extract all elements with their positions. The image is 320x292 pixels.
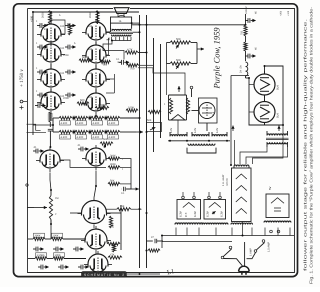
grid coupling cap C8 <box>65 70 76 75</box>
junction dot 3 <box>139 24 141 26</box>
resistor R12 <box>109 216 112 228</box>
cathode cap C14 <box>48 129 53 131</box>
cap-arrow row4b <box>73 247 84 252</box>
filament winding W1 <box>170 135 187 137</box>
resistor R4b 600 <box>100 60 111 63</box>
svg-text:Purple Cow, 1959: Purple Cow, 1959 <box>212 27 222 90</box>
junction dot 16 <box>146 250 148 252</box>
svg-text:50K: 50K <box>147 119 152 122</box>
svg-text:SCHEMATIC No 2: SCHEMATIC No 2 <box>84 273 124 277</box>
wire HV down <box>240 147 267 164</box>
border frame inner <box>28 9 295 273</box>
label boxes row2 <box>60 135 71 139</box>
svg-text:1: 1 <box>36 90 38 93</box>
junction dot 2 <box>32 11 34 13</box>
wire tube col tops <box>50 12 52 24</box>
plug cord <box>224 259 243 266</box>
svg-text:16: 16 <box>119 20 122 23</box>
wire plate hookups <box>106 28 111 32</box>
resistor R3 <box>68 24 71 35</box>
svg-text:600: 600 <box>80 99 85 102</box>
resistor R13 <box>112 243 115 252</box>
svg-text:0.1: 0.1 <box>121 192 125 195</box>
junction dot 18 <box>186 140 188 142</box>
cap-arrow row4a <box>53 247 64 252</box>
svg-text:b: b <box>74 42 76 45</box>
wire pi <box>120 205 122 250</box>
resistor ladder row1 <box>59 116 72 119</box>
filament winding W3 <box>212 135 227 137</box>
svg-text:2000: 2000 <box>42 12 45 18</box>
wire V10 V11 <box>95 171 97 186</box>
junction dot 1 <box>97 11 99 13</box>
phase inverter V11 <box>78 198 111 229</box>
resistor R10 <box>148 110 161 113</box>
junction dot 9 <box>52 124 54 126</box>
resistor R16 <box>107 242 120 245</box>
core line <box>168 140 230 142</box>
svg-text:2000: 2000 <box>89 12 92 18</box>
wire mid verticals <box>139 15 141 268</box>
plate resistor R32 56k <box>108 182 120 185</box>
wire V9 plate <box>60 160 106 167</box>
coupling cap C15 <box>124 187 126 191</box>
wire V7 jog <box>113 74 115 93</box>
svg-text:+510V: +510V <box>245 6 248 14</box>
tube V12 <box>81 226 111 254</box>
wire tube16 <box>192 110 200 112</box>
junction dot 11 <box>146 212 148 214</box>
resistor R17 <box>108 256 122 259</box>
terminal b <box>277 230 280 233</box>
svg-text:4-300: 4-300 <box>93 122 100 125</box>
pot 50k/2w <box>147 119 162 132</box>
title plate <box>82 272 127 278</box>
svg-text:100K: 100K <box>53 235 59 238</box>
junction dot 10 <box>139 208 141 210</box>
wire V9 pot <box>49 173 51 180</box>
junction dot 12 <box>50 189 52 191</box>
svg-text:4-300: 4-300 <box>109 136 116 139</box>
rectifier loop wires <box>249 66 283 125</box>
B+ wire mid <box>245 36 247 42</box>
svg-text:6.3V: 6.3V <box>193 211 197 217</box>
rectifier V15 <box>254 99 275 126</box>
svg-text:300K: 300K <box>110 163 116 166</box>
junction dot 30 <box>49 146 51 148</box>
pot feedback <box>100 142 113 145</box>
switch S2 <box>254 240 265 253</box>
junction dot 26 <box>264 65 266 67</box>
resistor R4 600 <box>79 59 91 62</box>
grid coupling cap C3 <box>37 70 48 75</box>
power transformer T7 <box>231 165 253 225</box>
svg-text:4-300: 4-300 <box>61 122 68 125</box>
svg-text:4-300: 4-300 <box>93 136 100 139</box>
svg-text:6.3V: 6.3V <box>220 211 224 217</box>
svg-text:+ 1750 v: + 1750 v <box>19 69 25 87</box>
resistor R33 1k <box>117 208 131 211</box>
junction dot 19 <box>208 140 210 142</box>
grid coupling cap C4 <box>37 93 48 98</box>
svg-text:100K: 100K <box>128 107 134 110</box>
junction dot 21 <box>242 235 244 237</box>
caps row1 <box>73 116 75 120</box>
svg-text:.01: .01 <box>33 146 37 149</box>
wire left bus <box>32 12 34 135</box>
output tube V3 <box>37 66 65 92</box>
tube V13 <box>84 251 112 277</box>
balance pots <box>167 38 205 69</box>
B+ wire mid2 <box>245 51 247 61</box>
resistor row5 <box>28 258 35 260</box>
transformer drops <box>175 228 177 236</box>
svg-text:t: t <box>122 168 123 171</box>
primary winding W4 <box>188 144 215 146</box>
svg-text:600: 600 <box>103 64 108 67</box>
svg-text:300K: 300K <box>110 154 116 157</box>
svg-text:b: b <box>59 14 61 17</box>
junction dot 4 <box>146 24 148 26</box>
svg-text:1: 1 <box>36 67 38 70</box>
tube V16 with shield <box>199 98 218 123</box>
svg-text:1 B. HEAT: 1 B. HEAT <box>222 174 225 186</box>
junction dot 15 <box>139 273 141 275</box>
junction dot 0 <box>50 11 52 13</box>
wire ladder left <box>52 118 54 132</box>
bus wire lower <box>162 235 294 237</box>
svg-text:+250: +250 <box>280 10 283 16</box>
resistor R6 4700 <box>95 106 109 109</box>
junction dot 22 <box>230 164 232 166</box>
plate rail wire <box>120 159 131 189</box>
svg-text:.01: .01 <box>77 144 81 147</box>
junction dot 36 <box>89 131 91 133</box>
junction dot 14 <box>95 185 97 187</box>
wire bias down <box>177 120 179 134</box>
transformer T1 <box>175 192 203 225</box>
cap-arrow row6c <box>78 265 89 270</box>
resistor R9 700 <box>127 64 139 67</box>
grid cap C12 <box>78 147 89 152</box>
svg-text:50K: 50K <box>176 38 181 41</box>
svg-text:6L6: 6L6 <box>212 111 215 116</box>
terminal post <box>190 86 193 89</box>
B+ wire top <box>245 14 247 25</box>
svg-text:1M: 1M <box>55 197 58 200</box>
wire pot down <box>50 220 52 240</box>
bus wire lower2 <box>162 241 232 243</box>
output tube V1 <box>37 21 65 47</box>
junction dot 23 <box>161 235 163 237</box>
svg-text:C.T.: C.T. <box>184 212 188 217</box>
svg-text:4.7K: 4.7K <box>127 49 133 52</box>
junction dot 24 <box>248 77 250 79</box>
arrow up A2 <box>277 126 280 132</box>
svg-text:700: 700 <box>130 68 135 71</box>
junction dot 29 <box>146 52 148 54</box>
junction dot 20 <box>226 140 228 142</box>
filter cap C20 <box>245 18 256 23</box>
wire heater box <box>187 148 216 153</box>
cap-arrow row4c <box>33 247 44 252</box>
HV transformer T6 <box>266 131 289 147</box>
grid coupling cap C1 <box>37 23 48 28</box>
plate resistor R31 300k <box>108 166 120 169</box>
driver tube V9 <box>36 147 64 173</box>
svg-text:1: 1 <box>36 42 38 45</box>
svg-text:4700: 4700 <box>98 104 104 107</box>
transformer T2 <box>202 192 228 225</box>
output tube V5 <box>82 19 110 45</box>
filament winding W2 <box>192 135 209 137</box>
grid coupling cap C9 <box>65 93 76 98</box>
output tube V8 <box>82 90 110 116</box>
cathode resistor R19 <box>49 112 52 122</box>
junction dot 17 <box>169 140 171 142</box>
svg-text:follower output stage for reli: follower output stage for reliable and h… <box>303 19 308 271</box>
plate resistor R2 <box>96 11 99 24</box>
svg-text:6.3V: 6.3V <box>179 211 183 217</box>
grid coupling cap C6 <box>65 23 76 28</box>
svg-text:2H .5A: 2H .5A <box>240 65 243 73</box>
wire sw vert <box>242 222 244 236</box>
wire top feed <box>33 11 139 13</box>
grid cap C11 <box>33 149 44 154</box>
feedback arrow <box>136 130 143 133</box>
label boxes row1 <box>60 121 71 125</box>
junction dot 25 <box>282 124 284 126</box>
svg-text:220K: 220K <box>63 97 69 100</box>
wire col join <box>50 43 52 46</box>
svg-text:30K: 30K <box>112 223 115 228</box>
junction dot 6 <box>245 24 247 26</box>
wire cathode left <box>27 124 41 130</box>
output tube V6 <box>82 42 110 68</box>
svg-text:56K: 56K <box>110 180 115 183</box>
junction dot 33 <box>89 117 91 119</box>
switch S1 <box>221 246 232 259</box>
svg-text:50K: 50K <box>176 59 181 62</box>
choke L2 2H <box>246 62 248 76</box>
wire right bus <box>230 76 232 166</box>
junction dot 34 <box>105 117 107 119</box>
svg-text:1: 1 <box>36 20 38 23</box>
volume pot R11 <box>49 196 52 220</box>
grid coupling cap C7 <box>65 45 76 50</box>
junction dot 35 <box>73 131 75 133</box>
svg-text:50K: 50K <box>103 138 108 141</box>
wire pot down <box>166 64 168 96</box>
filter resistor R20 <box>244 25 247 36</box>
resistor R18 <box>148 249 160 252</box>
svg-text:5U4: 5U4 <box>277 113 280 118</box>
AC plug P1 <box>239 266 250 275</box>
wire B+ long <box>132 24 246 26</box>
svg-text:6.3V: 6.3V <box>216 128 219 133</box>
resistor ladder row2 <box>59 130 72 133</box>
svg-text:6.3V: 6.3V <box>194 128 197 133</box>
arrow out <box>126 187 139 190</box>
plate resistor R30 300k <box>108 157 120 160</box>
svg-text:40: 40 <box>255 47 258 50</box>
grid coupling cap C5 <box>35 103 46 108</box>
cap-arrow row6b <box>58 265 69 270</box>
resistor row3 <box>28 238 33 240</box>
B+ wire down <box>245 76 247 78</box>
terminal a <box>270 230 273 233</box>
label boxes row3 <box>34 233 45 237</box>
svg-text:100K: 100K <box>55 254 61 257</box>
filter resistor R21 <box>244 42 247 51</box>
svg-text:Fig. 1. Complete schematic for: Fig. 1. Complete schematic for the “Purp… <box>309 6 314 284</box>
svg-text:1.5 AMP: 1.5 AMP <box>268 242 271 252</box>
svg-text:1 MEG: 1 MEG <box>37 254 45 257</box>
svg-text:47: 47 <box>151 236 154 239</box>
svg-text:100: 100 <box>60 25 65 28</box>
arrow up A1 <box>231 126 234 132</box>
wire coupling <box>138 52 146 54</box>
svg-text:2: 2 <box>55 213 57 216</box>
junction dot 5 <box>139 31 141 33</box>
capacitor C10 <box>119 60 130 65</box>
filter cap C21 <box>245 54 256 59</box>
svg-text:4-300: 4-300 <box>77 122 84 125</box>
svg-text:600: 600 <box>82 56 87 59</box>
junction dot 27 <box>111 40 113 42</box>
resistor R7 100k <box>126 109 138 112</box>
wire V11 stub <box>70 212 82 214</box>
grid coupling cap C2 <box>37 45 48 50</box>
terminal J2 <box>26 184 28 186</box>
svg-text:6.3V: 6.3V <box>206 211 210 217</box>
svg-text:100: 100 <box>60 47 65 50</box>
junction dot 7 <box>139 117 141 119</box>
bias network <box>164 95 190 120</box>
svg-text:47K: 47K <box>110 254 115 257</box>
svg-text:4-300: 4-300 <box>109 122 116 125</box>
svg-text:L1: L1 <box>166 268 175 276</box>
svg-text:390K: 390K <box>35 235 41 238</box>
junction dot 28 <box>131 22 133 24</box>
rectifier V14 <box>254 71 275 98</box>
svg-text:40: 40 <box>255 11 258 14</box>
resistor R8 4.7k <box>125 51 138 54</box>
junction dot 37 <box>105 131 107 133</box>
output transformer T5 <box>103 23 139 59</box>
wire V13 bottom <box>97 273 99 277</box>
svg-text:1: 1 <box>164 103 166 106</box>
bus corner <box>161 236 163 249</box>
output tube V2 <box>37 41 65 67</box>
svg-text:5U4: 5U4 <box>277 85 280 90</box>
output tube V7 <box>82 66 110 92</box>
label boxes row5 <box>36 253 47 257</box>
caps row2 <box>73 130 75 134</box>
svg-text:1 AMP: 1 AMP <box>250 248 253 256</box>
svg-text:+105: +105 <box>287 10 290 16</box>
svg-text:(ground): (ground) <box>226 178 229 186</box>
svg-text:4-300: 4-300 <box>61 136 68 139</box>
input jack J1 <box>20 100 23 103</box>
driver tube V10 <box>82 145 110 171</box>
svg-text:8: 8 <box>44 28 46 31</box>
svg-text:750: 750 <box>241 30 244 35</box>
capacitor C13 <box>155 239 157 243</box>
svg-text:0.1: 0.1 <box>116 58 120 61</box>
junction dot 13 <box>50 223 52 225</box>
speaker SPKR <box>111 8 132 23</box>
junction dot 32 <box>73 117 75 119</box>
wire title <box>127 273 160 275</box>
output tube V4 <box>37 89 65 115</box>
svg-text:4-300: 4-300 <box>77 136 84 139</box>
junction dot 8 <box>146 131 148 133</box>
junction dot 31 <box>95 115 97 117</box>
arrow up <box>177 86 180 92</box>
transformer T4 <box>264 186 291 222</box>
plate resistor R1 <box>48 11 51 24</box>
wire input <box>27 207 34 209</box>
resistor R5 600 <box>77 102 89 105</box>
svg-text:5V: 5V <box>268 186 272 190</box>
wire rect down <box>253 125 284 164</box>
svg-text:100: 100 <box>60 72 65 75</box>
cap-arrow row6a <box>38 265 49 270</box>
